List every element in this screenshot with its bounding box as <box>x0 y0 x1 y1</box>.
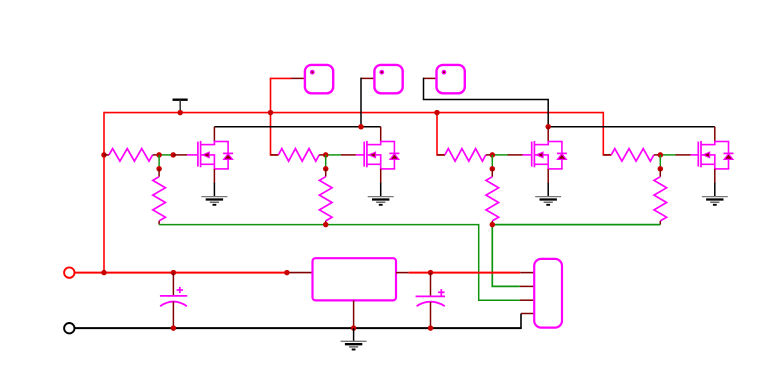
node rail-drop/R1 junction <box>101 152 107 158</box>
wire source lead M2 <box>380 169 382 197</box>
wire probe P1 lead <box>291 77 305 79</box>
wire gate to R4 (green) <box>325 155 327 169</box>
ground under U1 <box>341 341 367 349</box>
wire U1 output pin <box>396 272 409 274</box>
wire drain bus M3-M4 (black) <box>548 126 715 128</box>
node input/rail junction <box>101 270 107 276</box>
wire output bus (red) <box>409 272 521 274</box>
wire C1 bottom lead <box>172 302 174 329</box>
wire gate lead M2 <box>341 154 365 156</box>
wire probe P2 lead <box>361 77 375 79</box>
node P2/drain-bus junction <box>358 124 364 130</box>
node U1 input pin junction <box>284 270 290 276</box>
resistor R6 <box>486 169 499 225</box>
node C1/ground-bus junction <box>171 325 177 331</box>
wire ground bus (black) <box>75 327 521 329</box>
wire R7 to gate M4 (green) <box>660 154 675 156</box>
terminal input - (black) <box>64 323 74 333</box>
wire gate to R2 (green) <box>158 155 160 169</box>
wire connector pin3 lead <box>520 299 535 301</box>
wire probe P2 drop (black) <box>360 78 362 127</box>
node bus A / R4 junction <box>323 222 329 228</box>
wire sense bus B (stages 3-4 to connector pin2, green) <box>492 225 660 287</box>
regulator U1 <box>313 258 397 300</box>
power bar VCC <box>173 100 188 111</box>
wire U1 ground pin <box>353 300 355 327</box>
resistor R5 <box>437 149 492 162</box>
wire source lead M4 <box>714 169 716 197</box>
node gate node stage1 <box>156 152 162 158</box>
wire rail drop to R7 (stage4 feed) <box>603 112 611 155</box>
node R8 top junction <box>658 166 664 172</box>
node R4 top junction <box>323 166 329 172</box>
node rail/P1/stage2 junction <box>268 110 274 116</box>
node R6 top junction <box>490 166 496 172</box>
connector J1 <box>534 259 562 328</box>
node U1-gnd/ground-bus junction <box>351 325 357 331</box>
node output/C2 junction <box>428 270 434 276</box>
wire connector pin1 lead <box>520 272 534 274</box>
wire connector pin2 lead <box>520 285 535 287</box>
wire connector pin4 lead <box>521 313 535 315</box>
wire C1 top lead <box>172 273 174 296</box>
voltage probe P2 <box>374 65 402 93</box>
wire gate lead M4 <box>676 154 699 156</box>
node gate node stage4 <box>658 152 664 158</box>
wire gate lead M3 <box>508 154 533 156</box>
wire probe P3 drop and run (black) <box>424 78 549 127</box>
wire drain lead M1 <box>213 127 215 142</box>
capacitor C1 (polarized) <box>160 287 187 306</box>
wire rail drop to input bus <box>103 112 105 273</box>
node C2/ground-bus junction <box>428 325 434 331</box>
wire gate to R8 (green) <box>659 155 661 169</box>
wire source lead M3 <box>547 169 549 197</box>
resistor R3 <box>271 149 326 162</box>
wire rail to R5 (stage3 feed) <box>437 113 445 155</box>
resistor R4 <box>319 169 332 225</box>
resistor R7 <box>603 149 660 162</box>
wire R5 to gate M3 (green) <box>492 154 507 156</box>
resistor R8 <box>654 169 667 225</box>
node input/C1 junction <box>171 270 177 276</box>
wire drain lead M3 <box>547 127 549 142</box>
transistor Q3 (NMOS) <box>532 141 567 169</box>
wire sense bus A (stages 1-2 to connector pin3, green) <box>159 225 520 301</box>
wire U1 ground stem <box>353 328 355 341</box>
node rail/stage3 junction <box>434 110 440 116</box>
wire source lead M1 <box>213 169 215 197</box>
wire probe P1 to rail (red) <box>271 78 292 112</box>
node A1 gate node extra junction <box>170 152 176 158</box>
wire VCC rail (red) <box>104 112 603 114</box>
node gate node stage2 <box>323 152 329 158</box>
terminal input + (red) <box>64 267 74 277</box>
voltage probe P1 <box>305 65 333 93</box>
ground under M3 <box>535 197 561 205</box>
wire R3 to gate M2 (green) <box>326 154 341 156</box>
node rail/power-bar junction <box>177 110 183 116</box>
wire regulator U1 input pin <box>287 272 313 274</box>
wire probe P3 lead <box>424 77 437 79</box>
wire C2 top lead <box>430 273 432 296</box>
node P3/drain-bus junction <box>545 124 551 130</box>
wire gate to R6 (green) <box>491 155 493 169</box>
ground under M4 <box>702 197 728 205</box>
wire drain bus M1-M2 (black) <box>214 126 380 128</box>
wire input bus (red) <box>75 272 287 274</box>
capacitor C2 (polarized) <box>416 289 445 306</box>
voltage probe P3 <box>437 65 465 93</box>
resistor R1 <box>104 149 159 162</box>
resistor R2 <box>153 169 166 225</box>
wire R1 to gate (green) <box>159 154 173 156</box>
node gate node stage3 <box>490 152 496 158</box>
wire drain lead M2 <box>380 127 382 142</box>
ground under M1 <box>201 197 227 205</box>
node bus B / R6 junction <box>490 222 496 228</box>
ground under M2 <box>368 197 394 205</box>
transistor Q4 (NMOS) <box>698 141 733 169</box>
transistor Q1 (NMOS) <box>198 141 233 169</box>
wire drain lead M4 <box>714 127 716 142</box>
transistor Q2 (NMOS) <box>364 141 399 169</box>
wire gate lead M1 <box>173 154 198 156</box>
wire rail to R3 (stage2 feed) <box>271 113 279 155</box>
node R2 top junction <box>156 166 162 172</box>
wire C2 bottom lead <box>430 302 432 328</box>
wire ground bus riser to connector pin4 <box>520 314 522 330</box>
